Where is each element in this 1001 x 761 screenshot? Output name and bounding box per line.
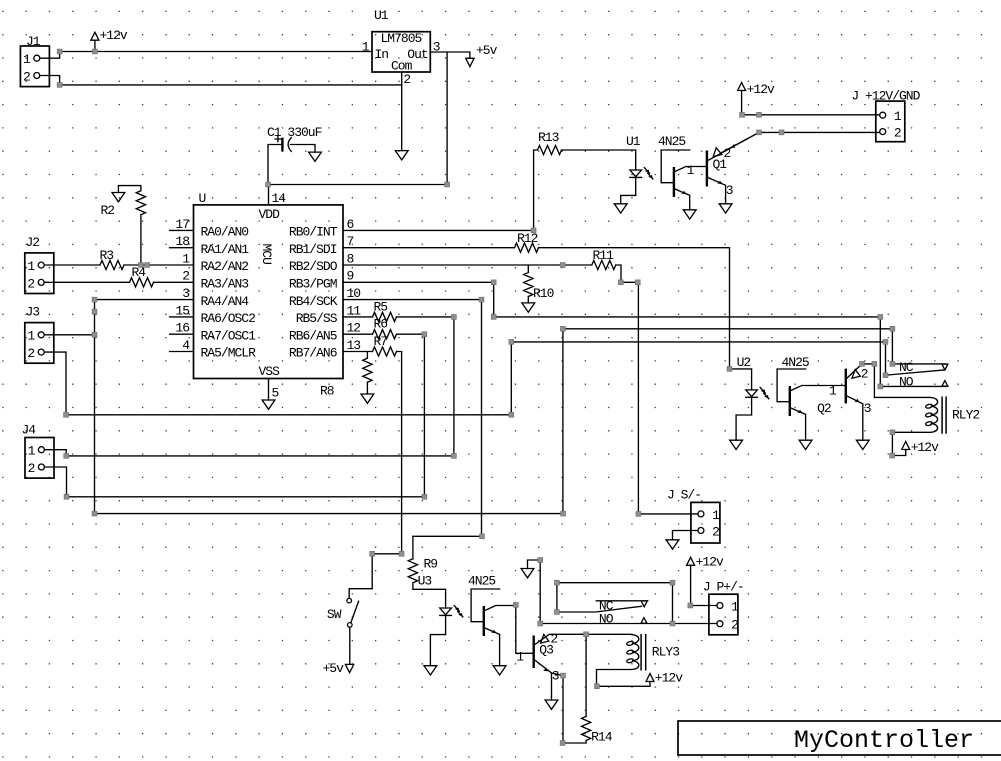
svg-text:SW: SW	[327, 607, 342, 622]
svg-text:J1: J1	[26, 34, 41, 49]
svg-text:MCU: MCU	[259, 244, 274, 265]
svg-text:1: 1	[27, 259, 35, 274]
svg-text:NO: NO	[599, 611, 614, 626]
svg-text:1: 1	[829, 384, 837, 399]
svg-text:R12: R12	[517, 231, 538, 246]
svg-text:NC: NC	[899, 360, 914, 375]
svg-text:3: 3	[433, 40, 440, 55]
svg-text:J +12V/GND: J +12V/GND	[851, 88, 920, 103]
svg-text:RB0/INT: RB0/INT	[289, 225, 338, 240]
svg-text:1: 1	[27, 329, 35, 344]
svg-text:R4: R4	[132, 265, 147, 280]
svg-text:U1: U1	[374, 8, 389, 23]
svg-text:C1 330uF: C1 330uF	[267, 125, 322, 140]
svg-text:2: 2	[403, 72, 410, 87]
svg-text:1: 1	[362, 40, 370, 55]
svg-text:1: 1	[28, 444, 36, 459]
svg-text:R14: R14	[591, 730, 613, 745]
svg-text:3: 3	[864, 401, 871, 416]
svg-text:R11: R11	[593, 248, 615, 263]
svg-text:14: 14	[272, 191, 287, 206]
svg-text:1: 1	[182, 251, 190, 266]
svg-text:R7: R7	[374, 334, 388, 349]
svg-text:3: 3	[726, 183, 733, 198]
svg-text:+5v: +5v	[323, 661, 345, 676]
svg-text:1: 1	[23, 52, 31, 67]
svg-text:RB2/SDO: RB2/SDO	[289, 259, 338, 274]
svg-text:6: 6	[347, 217, 354, 232]
svg-text:1: 1	[894, 109, 902, 124]
svg-text:2: 2	[27, 346, 34, 361]
svg-text:U2: U2	[737, 355, 751, 370]
svg-text:LM7805: LM7805	[381, 31, 422, 46]
svg-text:11: 11	[347, 303, 362, 318]
svg-text:RA1/AN1: RA1/AN1	[201, 242, 250, 257]
svg-text:2: 2	[724, 146, 731, 161]
svg-text:2: 2	[28, 461, 35, 476]
svg-text:+12v: +12v	[911, 440, 939, 455]
svg-text:VSS: VSS	[259, 364, 281, 379]
svg-text:4N25: 4N25	[658, 134, 685, 149]
svg-text:RA0/AN0: RA0/AN0	[201, 225, 249, 240]
svg-text:18: 18	[175, 234, 189, 249]
svg-text:J3: J3	[26, 305, 40, 320]
svg-text:RB1/SDI: RB1/SDI	[289, 242, 337, 257]
svg-text:RLY3: RLY3	[652, 644, 679, 659]
svg-text:4N25: 4N25	[468, 574, 495, 589]
svg-text:In: In	[375, 47, 389, 62]
svg-text:R9: R9	[424, 556, 438, 571]
svg-text:U3: U3	[418, 574, 432, 589]
svg-text:+12v: +12v	[655, 670, 683, 685]
svg-text:R10: R10	[533, 286, 554, 301]
svg-text:R5: R5	[374, 299, 388, 314]
svg-text:8: 8	[347, 251, 354, 266]
svg-text:7: 7	[347, 234, 354, 249]
svg-text:MyController: MyController	[794, 726, 974, 755]
svg-text:3: 3	[182, 286, 189, 301]
svg-text:9: 9	[347, 269, 354, 284]
svg-text:RB7/AN6: RB7/AN6	[289, 346, 337, 361]
svg-text:2: 2	[731, 618, 738, 633]
svg-text:R3: R3	[100, 248, 114, 263]
svg-text:17: 17	[175, 217, 189, 232]
svg-text:1: 1	[712, 508, 720, 523]
svg-text:2: 2	[182, 269, 189, 284]
svg-text:RA6/OSC2: RA6/OSC2	[201, 311, 256, 326]
svg-text:2: 2	[550, 632, 557, 647]
svg-text:+12v: +12v	[696, 554, 724, 569]
svg-text:RB4/SCK: RB4/SCK	[289, 294, 338, 309]
svg-text:RB5/SS: RB5/SS	[296, 311, 338, 326]
svg-text:J P+/-: J P+/-	[703, 580, 744, 595]
svg-text:1: 1	[687, 163, 695, 178]
svg-text:15: 15	[175, 303, 189, 318]
svg-text:1: 1	[516, 650, 524, 665]
svg-text:2: 2	[27, 276, 34, 291]
svg-text:VDD: VDD	[259, 207, 281, 222]
svg-text:RA2/AN2: RA2/AN2	[201, 259, 249, 274]
svg-text:U1: U1	[626, 134, 641, 149]
svg-text:12: 12	[347, 321, 361, 336]
svg-text:J4: J4	[22, 423, 37, 438]
svg-text:J S/-: J S/-	[667, 488, 701, 503]
svg-text:RB3/PGM: RB3/PGM	[289, 277, 337, 292]
svg-text:+12v: +12v	[100, 28, 128, 43]
svg-text:U: U	[199, 191, 206, 206]
svg-text:NO: NO	[899, 374, 914, 389]
svg-text:R6: R6	[374, 317, 388, 332]
svg-text:2: 2	[894, 126, 901, 141]
svg-text:RA3/AN3: RA3/AN3	[201, 277, 249, 292]
svg-text:3: 3	[552, 669, 559, 684]
svg-text:RA7/OSC1: RA7/OSC1	[201, 328, 257, 343]
svg-text:J2: J2	[26, 235, 40, 250]
svg-text:4N25: 4N25	[782, 355, 809, 370]
svg-text:R13: R13	[538, 130, 559, 145]
svg-text:5: 5	[272, 386, 279, 401]
svg-text:16: 16	[175, 321, 189, 336]
svg-text:4: 4	[182, 338, 190, 353]
svg-text:+12v: +12v	[747, 82, 775, 97]
svg-text:Q2: Q2	[817, 401, 831, 416]
svg-text:2: 2	[861, 367, 868, 382]
svg-text:2: 2	[23, 69, 30, 84]
svg-text:R2: R2	[101, 203, 115, 218]
svg-text:+5v: +5v	[476, 43, 498, 58]
svg-text:10: 10	[347, 286, 361, 301]
svg-text:RA4/AN4: RA4/AN4	[201, 294, 250, 309]
svg-text:RLY2: RLY2	[952, 408, 979, 423]
svg-text:RA5/MCLR: RA5/MCLR	[201, 346, 257, 361]
svg-text:R8: R8	[320, 383, 334, 398]
svg-text:13: 13	[347, 338, 361, 353]
svg-text:2: 2	[712, 524, 719, 539]
svg-text:1: 1	[731, 599, 739, 614]
svg-text:RB6/AN5: RB6/AN5	[289, 328, 337, 343]
